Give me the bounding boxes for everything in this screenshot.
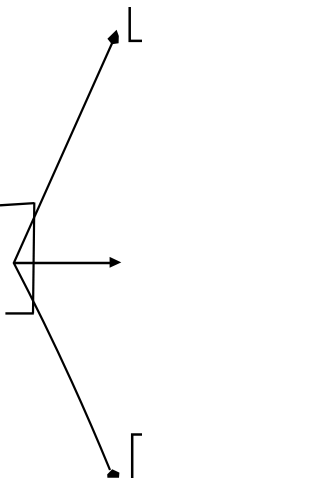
left box bottom edge — [5, 312, 33, 314]
wire: arrow shaft to top-right — [14, 40, 114, 263]
arrowhead middle-right — [110, 257, 122, 268]
left box right edge — [33, 203, 34, 314]
left box top edge — [0, 203, 34, 205]
top-right box corner (bottom-left of cut-off box) — [130, 7, 142, 41]
arrowhead top-right — [107, 30, 118, 44]
wire: arrow shaft to bottom-right (slightly bowed) — [14, 263, 110, 470]
wire: arrow shaft to middle-right — [14, 262, 111, 265]
arrowhead bottom-right — [107, 469, 119, 478]
node A: fan-out vertex — [13, 262, 15, 264]
bottom-right box corner (top-left of cut-off box) — [132, 435, 142, 478]
